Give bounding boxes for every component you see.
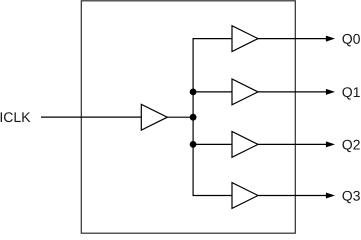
buffer input U1 (141, 104, 167, 130)
label Q1 (342, 87, 359, 99)
wire Q1 output (258, 91, 328, 93)
label Q0 (342, 34, 359, 46)
node junction Q1 tap (190, 89, 197, 96)
buffer Q2 (232, 132, 258, 158)
node junction buffer output (190, 114, 197, 121)
wire ICLK input (41, 116, 141, 118)
node junction Q2 tap (190, 141, 197, 148)
arrow Q3 (326, 193, 335, 199)
wire Q2 output (258, 143, 328, 145)
arrow Q1 (326, 89, 335, 95)
wire input buffer output to bus (167, 116, 193, 118)
label ICLK (1, 112, 31, 122)
buffer Q1 (232, 79, 258, 105)
buffer Q3 (232, 183, 258, 209)
label Q2 (342, 140, 359, 152)
arrow Q0 (326, 36, 335, 42)
arrow Q2 (326, 141, 335, 147)
wire Q0 output (258, 38, 328, 40)
bus wire vertical (192, 39, 194, 196)
wire Q3 output (258, 195, 328, 197)
wire bus to Q0 buffer (193, 38, 233, 40)
wire bus to Q3 buffer (193, 195, 233, 197)
wire bus to Q2 buffer (193, 143, 232, 145)
label Q3 (342, 191, 359, 203)
buffer Q0 (232, 26, 258, 52)
wire bus to Q1 buffer (193, 91, 232, 93)
device outline box (81, 1, 295, 233)
